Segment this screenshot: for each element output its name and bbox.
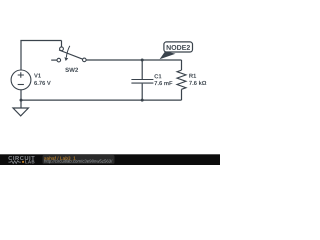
footer logo orange diamond xyxy=(22,161,24,163)
junction dot V1 bottom xyxy=(20,99,23,102)
wire V1 top to rail xyxy=(20,41,22,71)
switch SW2 common contact circle xyxy=(83,58,87,62)
resistor R1 top lead xyxy=(181,60,183,70)
wire V1 bottom lead xyxy=(20,90,22,101)
ground symbol xyxy=(13,108,28,116)
wire drop to switch xyxy=(61,41,63,48)
footer logo LAB xyxy=(25,160,34,163)
label C1 name xyxy=(154,74,161,78)
footer watermark bar xyxy=(0,154,220,165)
resistor R1 zigzag xyxy=(177,70,186,89)
switch SW2 stub wire xyxy=(51,59,57,61)
wire ground lead xyxy=(20,100,22,108)
footer logo zigzag xyxy=(8,161,21,164)
label R1 name xyxy=(189,74,196,78)
footer info line 2 xyxy=(44,159,112,163)
V1 plus sign xyxy=(18,72,24,78)
wire C1 bottom lead xyxy=(141,84,143,101)
junction dot C1 bottom xyxy=(141,99,144,102)
wire C1 top lead xyxy=(141,60,143,79)
label C1 value xyxy=(154,81,172,85)
switch SW2 lever xyxy=(59,50,83,59)
wire switch to node xyxy=(86,59,182,61)
node flag NODE2 text xyxy=(167,45,190,50)
resistor R1 bottom lead xyxy=(181,89,183,100)
label V1 value xyxy=(34,81,51,85)
footer logo CIRCUIT xyxy=(8,156,34,160)
label SW2 name xyxy=(65,68,78,72)
switch SW2 arrow head xyxy=(64,57,68,61)
V1 minus sign xyxy=(18,84,24,86)
switch SW2 left contact circle xyxy=(57,58,61,62)
wire top rail xyxy=(20,40,61,42)
junction dot C1 top xyxy=(141,59,144,62)
voltage source V1 circle xyxy=(11,70,31,90)
switch SW2 actuator arrow line xyxy=(66,46,70,58)
footer info box xyxy=(43,155,115,164)
capacitor C1 plates xyxy=(131,80,153,84)
footer info line 1 xyxy=(44,156,75,160)
wire bottom rail xyxy=(21,99,182,101)
label V1 name xyxy=(34,74,41,78)
switch SW2 top contact circle xyxy=(60,47,64,51)
label R1 value xyxy=(189,81,206,85)
node flag NODE2 box xyxy=(164,42,193,52)
node flag NODE2 tail xyxy=(160,51,176,59)
